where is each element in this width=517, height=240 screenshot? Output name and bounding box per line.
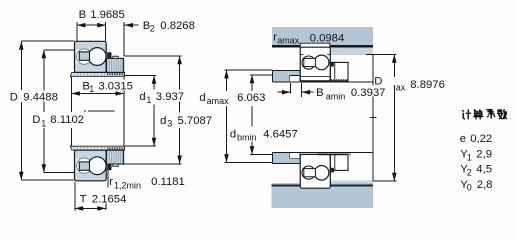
svg-text:1: 1 — [41, 118, 46, 128]
svg-text:amin: amin — [326, 91, 346, 101]
svg-text:1: 1 — [89, 84, 94, 94]
svg-text:B: B — [316, 87, 324, 99]
svg-text:bmin: bmin — [237, 132, 257, 142]
svg-text:e: e — [460, 133, 466, 145]
svg-text:2,9: 2,9 — [476, 149, 492, 161]
svg-text:6.063: 6.063 — [237, 92, 265, 104]
svg-text:r: r — [109, 176, 113, 188]
svg-text:D: D — [32, 114, 40, 126]
svg-text:2: 2 — [150, 23, 155, 33]
svg-text:d: d — [230, 129, 236, 141]
svg-text:0.1181: 0.1181 — [151, 176, 185, 188]
svg-text:3.0315: 3.0315 — [98, 81, 133, 93]
svg-text:4.6457: 4.6457 — [263, 129, 298, 141]
svg-text:8.1102: 8.1102 — [50, 114, 84, 126]
svg-text:0: 0 — [467, 182, 472, 192]
svg-text:ax: ax — [396, 82, 406, 92]
svg-text:amax: amax — [277, 35, 300, 45]
svg-text:2,8: 2,8 — [477, 179, 493, 191]
svg-text:1: 1 — [467, 152, 472, 162]
svg-text:2: 2 — [467, 167, 472, 177]
svg-text:d: d — [199, 92, 205, 104]
svg-text:3.937: 3.937 — [156, 91, 184, 103]
svg-text:1: 1 — [146, 95, 151, 105]
svg-text:B: B — [79, 9, 87, 21]
svg-text:d: d — [160, 115, 166, 127]
svg-text:0,22: 0,22 — [470, 133, 492, 145]
svg-text:0.8268: 0.8268 — [160, 20, 195, 32]
svg-text:4,5: 4,5 — [476, 164, 492, 176]
svg-text:5.7087: 5.7087 — [178, 115, 213, 127]
svg-text:2.1654: 2.1654 — [92, 193, 127, 205]
svg-text:1.9685: 1.9685 — [90, 9, 125, 21]
svg-text:D: D — [10, 91, 18, 103]
svg-text:1,2min: 1,2min — [114, 181, 141, 191]
svg-text:0.0984: 0.0984 — [310, 32, 345, 44]
svg-text:9.4488: 9.4488 — [23, 91, 58, 103]
svg-text:0.3937: 0.3937 — [351, 87, 386, 99]
svg-text:D: D — [374, 76, 382, 88]
svg-text:amax: amax — [207, 96, 230, 106]
svg-text:3: 3 — [167, 118, 172, 128]
svg-text:d: d — [139, 91, 145, 103]
svg-text:8.8976: 8.8976 — [410, 79, 445, 91]
svg-text:T: T — [80, 193, 87, 205]
